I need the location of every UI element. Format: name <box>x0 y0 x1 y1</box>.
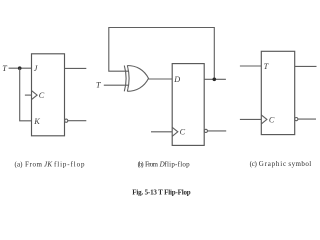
pin label K <box>33 117 40 126</box>
bubble Q' (b) <box>204 129 207 132</box>
svg-text:C: C <box>39 91 45 100</box>
svg-text:(c): (c) <box>250 160 258 168</box>
wire C input (c) <box>240 118 261 120</box>
clock wedge C (c) <box>261 115 267 124</box>
wire T input (c) <box>240 65 261 67</box>
svg-text:(b): (b) <box>138 160 145 168</box>
bubble Q' (c) <box>295 118 298 121</box>
pin label C (a) <box>39 91 45 100</box>
node T label (b) <box>96 81 102 90</box>
wire Q output (a) <box>65 67 87 69</box>
svg-text:flip-flop: flip-flop <box>54 160 85 168</box>
flip-flop U1 (JK) box <box>32 54 65 136</box>
flip-flop U3 (D) box <box>172 64 204 146</box>
wire T input (a) <box>9 67 32 69</box>
caption (a) From JK flip-flop <box>15 160 86 168</box>
wire T to XOR input (b) <box>104 84 129 86</box>
pin label D <box>173 75 180 84</box>
pin label T (c) <box>264 62 270 71</box>
flip-flop U4 (T graphic symbol) box <box>261 51 294 134</box>
junction dot Q feedback (b) <box>213 78 217 82</box>
junction dot T node (a) <box>18 66 22 70</box>
svg-text:From: From <box>145 160 159 168</box>
wire C stub (a) <box>25 94 32 96</box>
svg-text:From: From <box>25 160 43 168</box>
svg-text:Graphic: Graphic <box>259 160 286 168</box>
wire XOR output to D (b) <box>149 78 173 80</box>
svg-text:K: K <box>33 117 40 126</box>
wire T junction to K input (a) <box>20 68 32 121</box>
svg-text:Fig. 5-13 T Flip-Flop: Fig. 5-13 T Flip-Flop <box>132 189 190 197</box>
figure caption Fig. 5-13 T Flip-Flop <box>132 189 190 197</box>
svg-text:(a): (a) <box>15 160 24 168</box>
clock wedge C (b) <box>172 127 178 136</box>
wire Q output (c) <box>295 65 317 67</box>
caption (c) Graphic symbol <box>250 160 312 168</box>
svg-text:symbol: symbol <box>288 160 311 168</box>
wire Q output (b) <box>204 78 226 80</box>
pin label C (b) <box>180 128 186 137</box>
bubble Q' (a) <box>65 119 68 122</box>
svg-text:T: T <box>2 64 8 73</box>
svg-text:C: C <box>269 115 275 124</box>
wire Q' output (c) <box>298 118 316 120</box>
svg-text:T: T <box>264 62 270 71</box>
wire Q' output (a) <box>68 120 86 122</box>
svg-text:J: J <box>34 64 38 73</box>
gate U2 XOR <box>124 66 126 92</box>
clock wedge C (a) <box>32 91 38 100</box>
wire feedback Q to XOR top input (b) <box>109 28 215 80</box>
caption (b) From D flip-flop <box>138 160 190 168</box>
svg-text:flip-flop: flip-flop <box>164 160 190 168</box>
pin label J <box>34 64 38 73</box>
pin label C (c) <box>269 115 275 124</box>
node T label (a) <box>2 64 8 73</box>
svg-text:JK: JK <box>44 160 52 168</box>
wire Q' output (b) <box>208 130 227 132</box>
svg-text:T: T <box>96 81 102 90</box>
svg-text:C: C <box>180 128 186 137</box>
wire C input (b) <box>151 131 172 133</box>
svg-text:D: D <box>173 75 180 84</box>
